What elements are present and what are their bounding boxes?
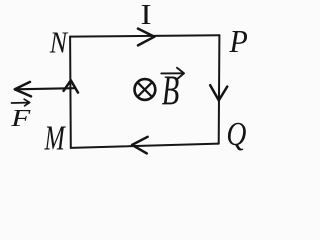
- current arrow on MN (points up): [64, 80, 78, 92]
- current arrow on QM (points left): [132, 137, 148, 154]
- current arrow on PQ (points down): [210, 85, 227, 100]
- wire PQ (right edge): [218, 35, 221, 143]
- svg-text:I: I: [141, 0, 152, 31]
- svg-text:M: M: [44, 118, 66, 157]
- label F with vector arrow: [10, 99, 31, 132]
- force arrow F (points left): [15, 82, 75, 97]
- svg-text:Q: Q: [226, 116, 246, 153]
- wire NP (top edge): [70, 35, 219, 36]
- svg-text:N: N: [49, 26, 69, 60]
- svg-text:P: P: [229, 23, 248, 59]
- current arrow on NP (points right): [138, 29, 154, 46]
- field symbol: circle with X (B into page): [135, 79, 156, 100]
- label B with vector arrow: [161, 67, 184, 114]
- svg-text:B: B: [162, 67, 180, 114]
- svg-text:F: F: [10, 106, 31, 132]
- wire QM (bottom edge): [71, 144, 219, 148]
- wire MN (left edge): [69, 37, 72, 148]
